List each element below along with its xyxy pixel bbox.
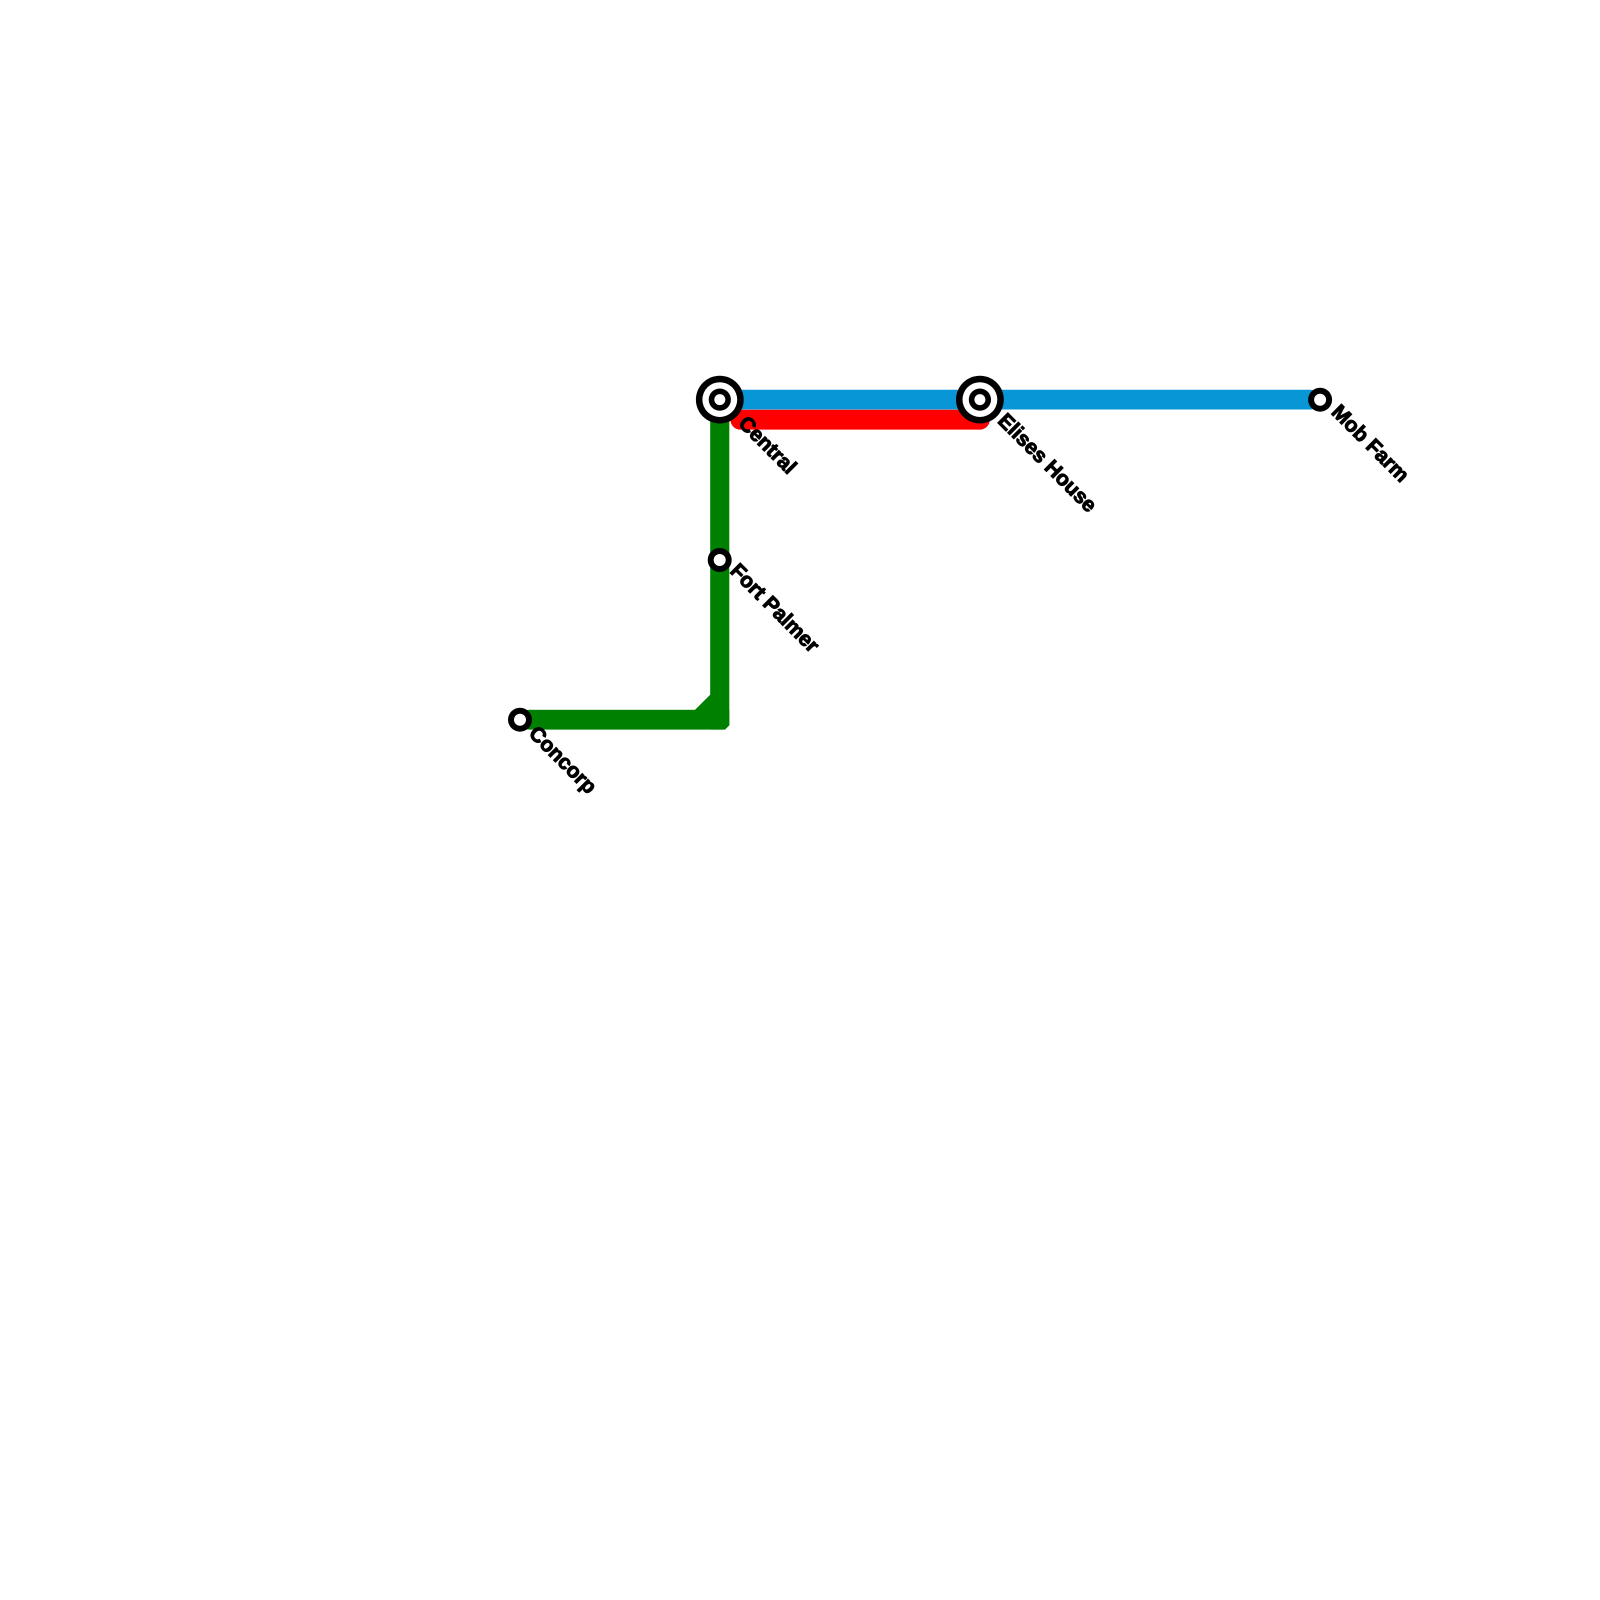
station Mob Farm xyxy=(1308,388,1332,412)
label Mob Farm xyxy=(1327,400,1414,487)
station Elises House (interchange) xyxy=(956,376,1004,424)
station Fort Palmer xyxy=(708,548,732,572)
green line horizontal segment (corner - Concorp) xyxy=(520,710,730,730)
label Central xyxy=(734,412,801,479)
label Fort Palmer xyxy=(726,559,824,657)
label Concorp xyxy=(524,722,601,799)
station Concorp xyxy=(508,708,532,732)
green line outer corner chamfer xyxy=(725,725,731,731)
blue line (Central - Elises House - Mob Farm) xyxy=(722,390,1310,410)
station Central (interchange) xyxy=(696,376,744,424)
red line (Central - Elises House) xyxy=(740,410,980,430)
green line corner bevel xyxy=(694,694,711,711)
green line vertical segment (Central - Fort Palmer - corner) xyxy=(710,399,729,730)
label Elises House xyxy=(993,409,1101,517)
